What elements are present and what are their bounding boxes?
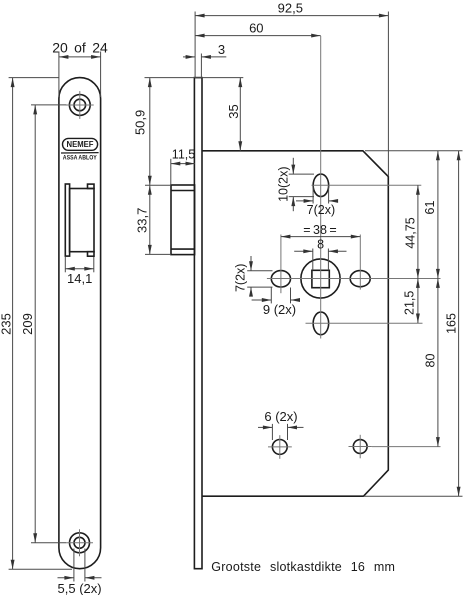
side view faceplate [194,78,202,569]
spindle hole with square [301,259,340,298]
dimension 44,75 [404,185,418,278]
dimension 35 [145,78,244,151]
svg-text:5,5 (2x): 5,5 (2x) [58,581,102,595]
dimension 10(2x) [277,158,314,211]
svg-text:Grootste slotkastdikte 16 mm: Grootste slotkastdikte 16 mm [211,560,395,574]
top screw hole [66,91,94,119]
horizontal centerline spindle row [267,278,441,280]
svg-text:50,9: 50,9 [133,110,148,135]
svg-text:165: 165 [445,313,459,334]
dimension 11,5 [171,148,195,185]
centerline left hole vertical [280,235,282,294]
svg-text:10(2x): 10(2x) [277,166,291,201]
faceplate front view outline [59,78,101,569]
note text [211,560,395,574]
dimension 20 of 24 [52,39,108,97]
left fixing hole [271,271,290,287]
svg-text:7(2x): 7(2x) [307,203,335,217]
svg-text:209: 209 [20,313,35,335]
dimension 60 [195,20,321,35]
dimension 6(2x) [258,409,304,440]
bottom right hole [349,435,372,459]
dimension =38= [281,223,360,237]
svg-text:6 (2x): 6 (2x) [264,409,297,424]
oval hole top [313,174,329,197]
centerline bottom right hole extension [372,446,441,448]
svg-text:7(2x): 7(2x) [233,264,247,292]
dimension 50,9 [133,78,150,186]
centerline oval lower [306,322,423,324]
dimension 209 [20,105,67,543]
dimension 8 [294,238,346,271]
centerline right hole vertical [359,235,361,290]
dimension 92,5 [195,0,388,176]
svg-text:3: 3 [218,42,225,57]
svg-text:ASSA ABLOY: ASSA ABLOY [63,155,98,162]
svg-text:35: 35 [226,104,241,118]
bottom screw hole [66,529,93,556]
svg-text:20 of 24: 20 of 24 [52,39,108,55]
centerline oval top [312,184,422,186]
svg-text:= 38 =: = 38 = [303,223,336,237]
svg-text:61: 61 [423,201,437,215]
svg-text:21,5: 21,5 [402,291,416,315]
dimension 61 [365,151,463,279]
svg-text:9 (2x): 9 (2x) [263,302,296,317]
dimension 165 [364,151,463,496]
dimension 14,1 [65,257,94,286]
latch bolt side view [171,185,195,255]
oval hole lower [313,312,329,335]
lock case outline [202,151,388,496]
svg-text:NEMEF: NEMEF [67,140,94,149]
bottom left hole [268,435,292,459]
dimension 33,7 [134,185,171,254]
svg-text:60: 60 [249,20,263,35]
dimension 7(2x) oval top [296,185,337,217]
dimension 21,5 [402,278,418,323]
dimension 235 [0,78,72,570]
svg-text:33,7: 33,7 [134,208,149,233]
vertical centerline spindle column [320,36,322,339]
svg-text:92,5: 92,5 [278,0,303,15]
dimension 3 [183,42,226,77]
dimension 5,5(2x) [58,549,102,595]
latch cutout front view [65,184,94,256]
svg-text:8: 8 [317,238,324,252]
dimension 9(2x) [252,288,299,317]
NEMEF logo [61,138,99,161]
right fixing hole [350,271,370,287]
svg-text:80: 80 [424,354,438,368]
svg-text:14,1: 14,1 [67,271,92,286]
svg-text:235: 235 [0,313,13,335]
svg-text:11,5: 11,5 [172,148,195,162]
svg-text:44,75: 44,75 [404,217,418,248]
dimension 7(2x) left hole [233,256,272,293]
dimension 80 [424,278,438,446]
